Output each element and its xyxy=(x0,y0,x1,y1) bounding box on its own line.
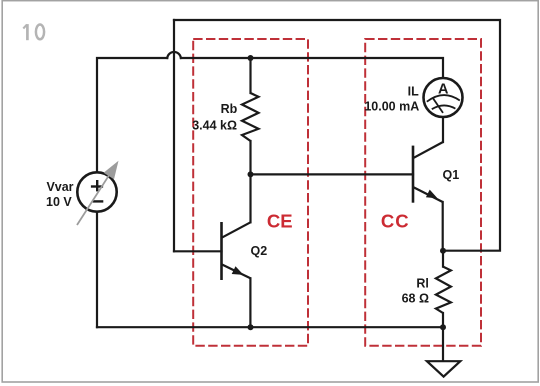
resistor Rb xyxy=(242,93,259,141)
node dot Rb top xyxy=(248,55,254,61)
wire Vvar bottom lead xyxy=(96,212,98,328)
svg-text:IL: IL xyxy=(408,84,419,98)
resistor Rl xyxy=(436,267,451,313)
svg-text:Vvar: Vvar xyxy=(46,180,73,194)
wire Vvar top to hop xyxy=(97,58,167,172)
ammeter U1 xyxy=(424,78,463,117)
svg-text:CC: CC xyxy=(381,211,410,232)
wire mid node to Q1 base xyxy=(251,173,414,175)
ground xyxy=(427,361,460,376)
svg-text:3.44 kΩ: 3.44 kΩ xyxy=(192,118,237,132)
wire Q1 emitter faller xyxy=(442,202,444,251)
slide number 10 xyxy=(23,24,44,40)
transistor Q1 xyxy=(413,142,443,203)
wire riser to Q2 collector xyxy=(249,174,251,222)
wire bottom rail xyxy=(97,326,443,328)
wire ground lead xyxy=(442,327,444,361)
wire left riser x=174 xyxy=(173,20,175,251)
transistor Q2 xyxy=(222,222,251,280)
node dot Q2 emitter bottom xyxy=(248,324,254,330)
node dot Q1 emitter xyxy=(440,248,446,254)
svg-text:10.00 mA: 10.00 mA xyxy=(364,100,419,114)
wire Rl top lead xyxy=(442,251,444,267)
svg-text:68 Ω: 68 Ω xyxy=(402,292,429,306)
wire top loop xyxy=(174,20,500,251)
wire ammeter bottom lead xyxy=(442,117,444,142)
svg-text:Q2: Q2 xyxy=(251,244,268,258)
wire Q2 emitter faller xyxy=(249,278,251,327)
svg-text:CE: CE xyxy=(267,210,293,231)
source Vvar xyxy=(77,161,119,225)
node dot Rl bottom xyxy=(440,324,446,330)
CC dashed region box xyxy=(365,39,481,346)
svg-text:Rl: Rl xyxy=(416,277,429,291)
svg-text:A: A xyxy=(438,81,449,97)
wire Rl bottom lead xyxy=(442,313,444,327)
wire Q2 base xyxy=(174,250,222,252)
wire Rb bottom lead xyxy=(249,141,251,174)
svg-text:Rb: Rb xyxy=(221,102,238,116)
svg-text:Q1: Q1 xyxy=(443,168,460,182)
wire hop to ammeter branch xyxy=(181,58,443,78)
CE dashed region box xyxy=(193,39,308,346)
wire hop over x=174 xyxy=(167,52,181,58)
svg-text:10 V: 10 V xyxy=(46,195,72,209)
node dot mid xyxy=(248,171,254,177)
wire Rb top lead xyxy=(249,58,251,93)
